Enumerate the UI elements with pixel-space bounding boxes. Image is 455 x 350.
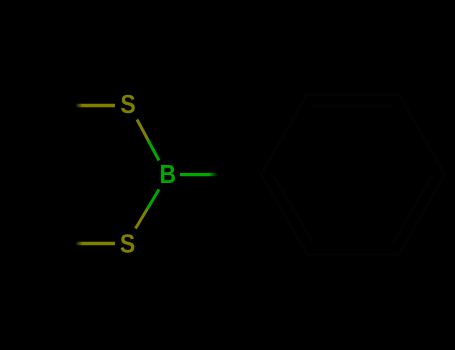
svg-text:S: S	[120, 228, 135, 258]
bond CH3-S (bottom methyl)	[76, 242, 115, 245]
benzene ring (carbon, black on black)	[261, 95, 445, 254]
svg-text:S: S	[120, 89, 135, 119]
bond S1-B (upper diagonal)	[137, 120, 159, 161]
svg-text:B: B	[160, 159, 177, 189]
bond S2-B (lower diagonal)	[136, 190, 160, 229]
bond B-C(ring)	[180, 173, 218, 176]
bond CH3-S (top methyl)	[76, 104, 115, 107]
